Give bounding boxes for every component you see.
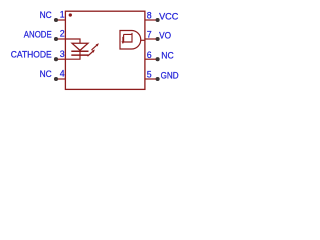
- LED D1: second bar: [71, 54, 88, 56]
- LED D1: anode wire: [65, 39, 80, 43]
- svg-text:NC: NC: [40, 10, 53, 20]
- IC body U1: [65, 11, 144, 89]
- pin 4 wire: [56, 78, 65, 80]
- emission arrow lower: [88, 50, 95, 57]
- pin 3 junction dot: [54, 57, 58, 61]
- LED D1: triangle: [72, 43, 88, 50]
- pin 8 junction dot: [156, 18, 160, 22]
- pin 3 wire: [56, 58, 65, 60]
- svg-text:NC: NC: [161, 51, 174, 61]
- svg-text:7: 7: [147, 30, 152, 40]
- svg-text:CATHODE: CATHODE: [11, 49, 52, 59]
- svg-text:VO: VO: [159, 30, 171, 40]
- pin 7 junction dot: [156, 37, 160, 41]
- pin 7 wire: [145, 38, 158, 40]
- LED D1: cathode wire: [65, 50, 80, 59]
- pin 5 wire: [145, 78, 158, 80]
- svg-text:ANODE: ANODE: [24, 30, 52, 40]
- LED D1: cathode bar: [71, 50, 88, 52]
- svg-text:3: 3: [60, 49, 65, 59]
- pin 6 junction dot: [156, 57, 160, 61]
- pin 2 junction dot: [54, 37, 58, 41]
- pin 8 wire: [145, 19, 158, 21]
- emission arrow upper: [92, 43, 99, 50]
- svg-text:6: 6: [147, 50, 152, 60]
- pin-1 marker dot: [69, 13, 72, 16]
- svg-text:4: 4: [60, 69, 65, 79]
- svg-text:VCC: VCC: [159, 11, 179, 21]
- pin 5 junction dot: [156, 77, 160, 81]
- pin 6 wire: [145, 58, 158, 60]
- svg-text:NC: NC: [40, 69, 53, 79]
- svg-text:8: 8: [147, 11, 152, 21]
- detector stub to body: [141, 39, 145, 41]
- svg-text:5: 5: [147, 70, 152, 80]
- svg-text:GND: GND: [161, 70, 179, 80]
- svg-text:2: 2: [60, 29, 65, 39]
- pin 2 wire: [56, 38, 65, 40]
- detector U1b: D outline: [120, 31, 141, 50]
- svg-text:1: 1: [60, 10, 65, 20]
- detector inner arrow: [121, 37, 124, 44]
- pin 1 junction dot: [54, 18, 58, 22]
- detector inner square: [124, 33, 132, 42]
- pin 1 wire: [56, 19, 65, 21]
- pin 4 junction dot: [54, 77, 58, 81]
